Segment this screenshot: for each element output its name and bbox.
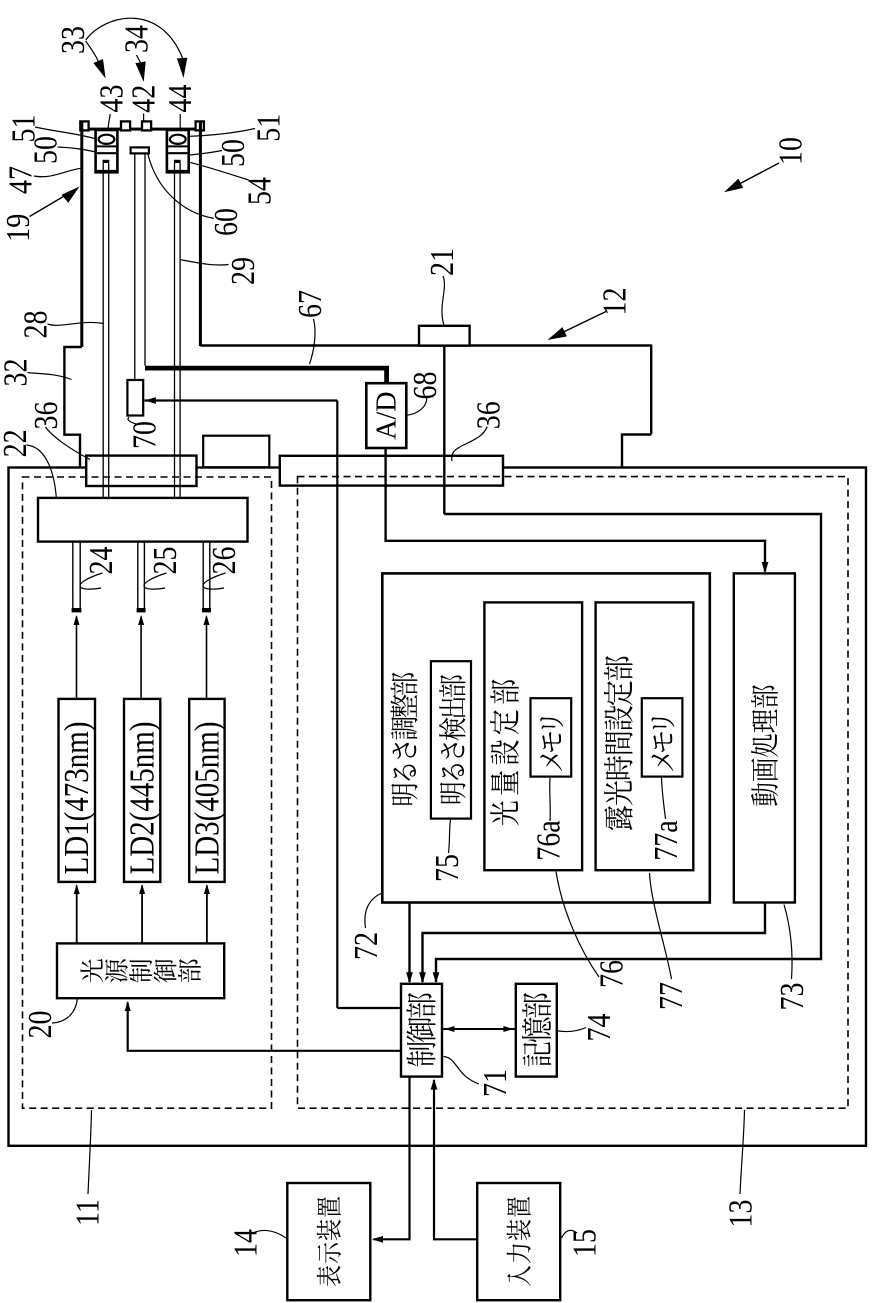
dashed box 11 light source unit [23, 477, 272, 1108]
svg-text:60: 60 [206, 208, 244, 236]
cap plate right post [196, 121, 204, 130]
lens 51 left ellipse [99, 135, 115, 144]
light amount setting box 76 [484, 602, 582, 870]
leader 33 leader b [86, 18, 183, 58]
arrow 10 [727, 163, 779, 191]
leader 70 leader [128, 417, 136, 424]
svg-text:12: 12 [595, 288, 633, 316]
connector bar 36 right [280, 456, 503, 486]
wires light source controller to LDs [76, 886, 78, 944]
leader 22 leader [27, 445, 57, 498]
svg-text:LD3(405nm): LD3(405nm) [187, 722, 226, 875]
input device box 15 [477, 1183, 560, 1300]
A/D output wire to video processor [386, 448, 765, 572]
leader 76a leader [549, 778, 552, 821]
leader 76 leader [556, 872, 599, 978]
brightness detector box 75 [431, 661, 471, 818]
svg-text:29: 29 [224, 257, 262, 285]
memory box 77a [642, 698, 683, 776]
svg-text:34: 34 [117, 25, 155, 53]
endoscope tip cap plate surface [80, 128, 204, 131]
svg-text:25: 25 [145, 547, 183, 575]
leader 71 leader [444, 1057, 480, 1085]
leader 28 leader [48, 322, 104, 325]
svg-text:71: 71 [476, 1069, 514, 1097]
svg-text:20: 20 [21, 1011, 59, 1039]
leader 33 leader a [86, 41, 100, 64]
svg-text:72: 72 [347, 932, 385, 960]
leader 60 leader [148, 155, 214, 219]
svg-text:11: 11 [68, 1199, 106, 1226]
beam LD2 to fiber 25 [140, 617, 142, 700]
leader 75 leader [449, 819, 451, 853]
controller box 71 [401, 984, 442, 1077]
wire adjuster 72 to controller 71 [408, 903, 410, 983]
leader 72 leader [365, 893, 382, 928]
light guide fiber right (29) [174, 163, 176, 498]
svg-text:LD2(445nm): LD2(445nm) [122, 722, 161, 875]
wire input 15 to controller [434, 1080, 477, 1239]
leader 50 left leader [58, 147, 97, 152]
bidirectional wire 71-74 [442, 1028, 516, 1030]
leader 26 leader [203, 573, 226, 589]
lens assembly 43 bottom edge [96, 170, 118, 172]
fiber 24 below box 22 [72, 542, 74, 612]
leader 14 leader [253, 1231, 286, 1238]
light source controller box 20 [57, 943, 224, 998]
wire controller 71 to light source controller [128, 1003, 401, 1051]
leader 50 right leader [190, 151, 223, 156]
svg-text:36: 36 [469, 401, 507, 429]
svg-text:50: 50 [26, 136, 64, 164]
leader 29 leader [180, 260, 229, 266]
leader 32 leader [28, 373, 72, 380]
leader 34 leader [137, 55, 142, 64]
laser diode LD1 473nm [59, 699, 96, 882]
cap plate tab B [142, 121, 151, 130]
leader 44 line [179, 114, 181, 128]
leader 11 leader [88, 1110, 92, 1194]
svg-text:13: 13 [721, 1200, 759, 1228]
svg-text:A/D: A/D [372, 391, 403, 439]
svg-text:10: 10 [771, 137, 809, 165]
svg-text:22: 22 [0, 429, 33, 457]
lens assembly 44 outer [167, 130, 189, 172]
leader 13 leader [740, 1110, 745, 1194]
leader 68 leader [407, 398, 427, 416]
svg-text:76: 76 [592, 960, 630, 988]
svg-text:68: 68 [405, 372, 443, 400]
leader 73 leader [784, 905, 792, 980]
wire controller to display 14 [374, 1077, 410, 1240]
image sensor window 60 [131, 147, 149, 153]
scope left wall [80, 122, 83, 347]
leader 43 line [108, 114, 110, 128]
signal cable lines from sensor 60 [134, 153, 136, 380]
svg-text:77a: 77a [647, 820, 685, 861]
arrow into video processing 73 [762, 562, 769, 573]
svg-text:36: 36 [27, 402, 65, 430]
light coupling box 22 [38, 498, 248, 542]
svg-text:42: 42 [124, 85, 162, 113]
scope right wall [199, 122, 202, 346]
svg-text:44: 44 [161, 85, 199, 113]
small box on console top [203, 436, 269, 468]
leader 25 leader [144, 573, 167, 589]
leader 51 left leader [35, 127, 97, 139]
svg-text:76a: 76a [529, 820, 567, 861]
svg-text:75: 75 [428, 854, 466, 882]
wire processor 12 to controller 71 [436, 514, 821, 982]
leader 74 leader [558, 1028, 587, 1032]
svg-text:70: 70 [125, 421, 163, 449]
wire video processor to controller 71 [423, 903, 766, 983]
arrow 19 [30, 189, 78, 217]
cap plate left post [80, 121, 88, 130]
svg-text:24: 24 [81, 547, 119, 575]
A/D converter box 68 [366, 383, 406, 448]
fiber ferrule in assembly 43 [103, 160, 110, 163]
leader 54 leader [190, 162, 249, 180]
leader 36 left leader [46, 427, 91, 460]
lens assembly 44 band lines [168, 145, 187, 147]
svg-text:77: 77 [652, 982, 690, 1010]
leader 47 leader [34, 168, 82, 177]
leader 15 leader [562, 1230, 578, 1238]
svg-text:21: 21 [423, 248, 461, 276]
fiber 26 below box 22 [202, 542, 204, 612]
console outer box (light source + processor housing) [9, 468, 867, 1146]
light guide fiber left (28) [102, 163, 104, 498]
dashed box 13 processor unit [298, 477, 849, 1109]
wire box70 line down to controller 71 [336, 401, 338, 1009]
leader 24 leader [80, 573, 103, 589]
line from scope to processor 12 top edge [200, 344, 651, 346]
svg-text:15: 15 [565, 1229, 603, 1257]
leader 77 leader [650, 873, 672, 979]
brightness adjuster box 72 [382, 573, 710, 902]
svg-text:67: 67 [291, 290, 329, 318]
wire from controller to box 70 [145, 399, 338, 401]
scope body step left [64, 347, 81, 467]
svg-text:47: 47 [1, 166, 39, 194]
leader 77a leader [662, 778, 666, 819]
memory box 74 [516, 984, 557, 1077]
svg-text:LD1(473nm): LD1(473nm) [57, 722, 96, 875]
connector bar 36 left [86, 456, 196, 486]
exposure time setting box 77 [596, 602, 694, 870]
display device box 14 [287, 1183, 370, 1300]
svg-text:26: 26 [205, 547, 243, 575]
svg-text:73: 73 [773, 983, 811, 1011]
signal wire 67 [145, 368, 387, 383]
svg-text:51: 51 [249, 114, 287, 142]
laser diode LD3 405nm [189, 699, 224, 882]
box 70 in scope [127, 380, 143, 416]
cap plate tab A [121, 121, 130, 130]
video processing box 73 [734, 573, 795, 902]
beam LD3 to fiber 26 [206, 617, 208, 700]
leader 36 right leader [452, 427, 487, 462]
fiber 25 below box 22 [137, 542, 139, 612]
svg-text:14: 14 [226, 1229, 264, 1257]
leader 20 leader [52, 999, 77, 1024]
lens 51 right ellipse [170, 135, 186, 144]
lens assembly 43 outer [96, 130, 118, 172]
leader 42 line [143, 114, 145, 122]
svg-text:54: 54 [240, 177, 278, 205]
beam LD1 to fiber 24 [76, 617, 78, 700]
laser diode LD2 445nm [124, 699, 160, 882]
processor 12 left edge [443, 346, 445, 514]
memory box 76a [531, 698, 572, 776]
arrow 12 [550, 312, 606, 339]
svg-text:19: 19 [0, 214, 37, 242]
svg-text:50: 50 [214, 139, 252, 167]
lens assembly 44 bottom edge [167, 170, 189, 172]
fiber ferrule in assembly 44 [174, 160, 181, 163]
leader 67 leader [310, 319, 316, 364]
processor 12 bottom step [622, 435, 651, 468]
leader 51 right leader [190, 129, 256, 137]
lens assembly 43 band lines [97, 145, 116, 147]
leader 21 leader [442, 276, 445, 325]
box 21 on top line [419, 326, 470, 346]
processor 12 right edge [650, 345, 652, 435]
